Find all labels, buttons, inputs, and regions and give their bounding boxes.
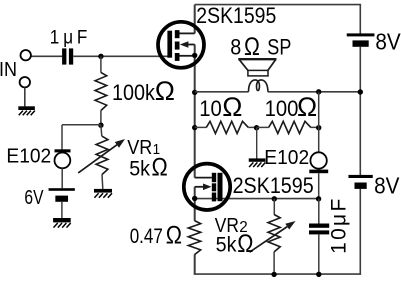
svg-text:100k: 100k: [112, 81, 155, 105]
svg-text:5k: 5k: [129, 158, 151, 181]
svg-text:IN: IN: [0, 59, 17, 81]
svg-text:Ω: Ω: [222, 92, 242, 122]
svg-text:100: 100: [265, 96, 299, 121]
svg-text:Ω: Ω: [152, 153, 168, 181]
svg-text:10: 10: [199, 96, 222, 121]
svg-text:E102: E102: [6, 145, 51, 167]
svg-text:μ: μ: [63, 26, 73, 47]
svg-text:Ω: Ω: [166, 221, 182, 249]
svg-text:VR: VR: [127, 137, 152, 159]
svg-text:6V: 6V: [24, 186, 43, 208]
svg-text:1: 1: [50, 26, 60, 47]
svg-text:2SK1595: 2SK1595: [196, 4, 276, 28]
svg-text:8: 8: [230, 36, 241, 60]
svg-text:F: F: [77, 26, 87, 47]
svg-text:8V: 8V: [375, 28, 401, 54]
svg-text:Ω: Ω: [237, 230, 253, 258]
svg-text:Ω: Ω: [244, 32, 260, 60]
svg-text:VR: VR: [215, 214, 239, 236]
svg-text:2SK1595: 2SK1595: [233, 174, 314, 198]
svg-text:E102: E102: [264, 147, 309, 169]
svg-text:0.47: 0.47: [130, 226, 163, 249]
svg-text:5k: 5k: [216, 234, 238, 257]
svg-text:SP: SP: [267, 36, 291, 60]
svg-text:10μF: 10μF: [328, 196, 351, 254]
svg-text:Ω: Ω: [155, 76, 175, 106]
svg-text:Ω: Ω: [297, 92, 317, 122]
svg-text:8V: 8V: [374, 172, 400, 198]
